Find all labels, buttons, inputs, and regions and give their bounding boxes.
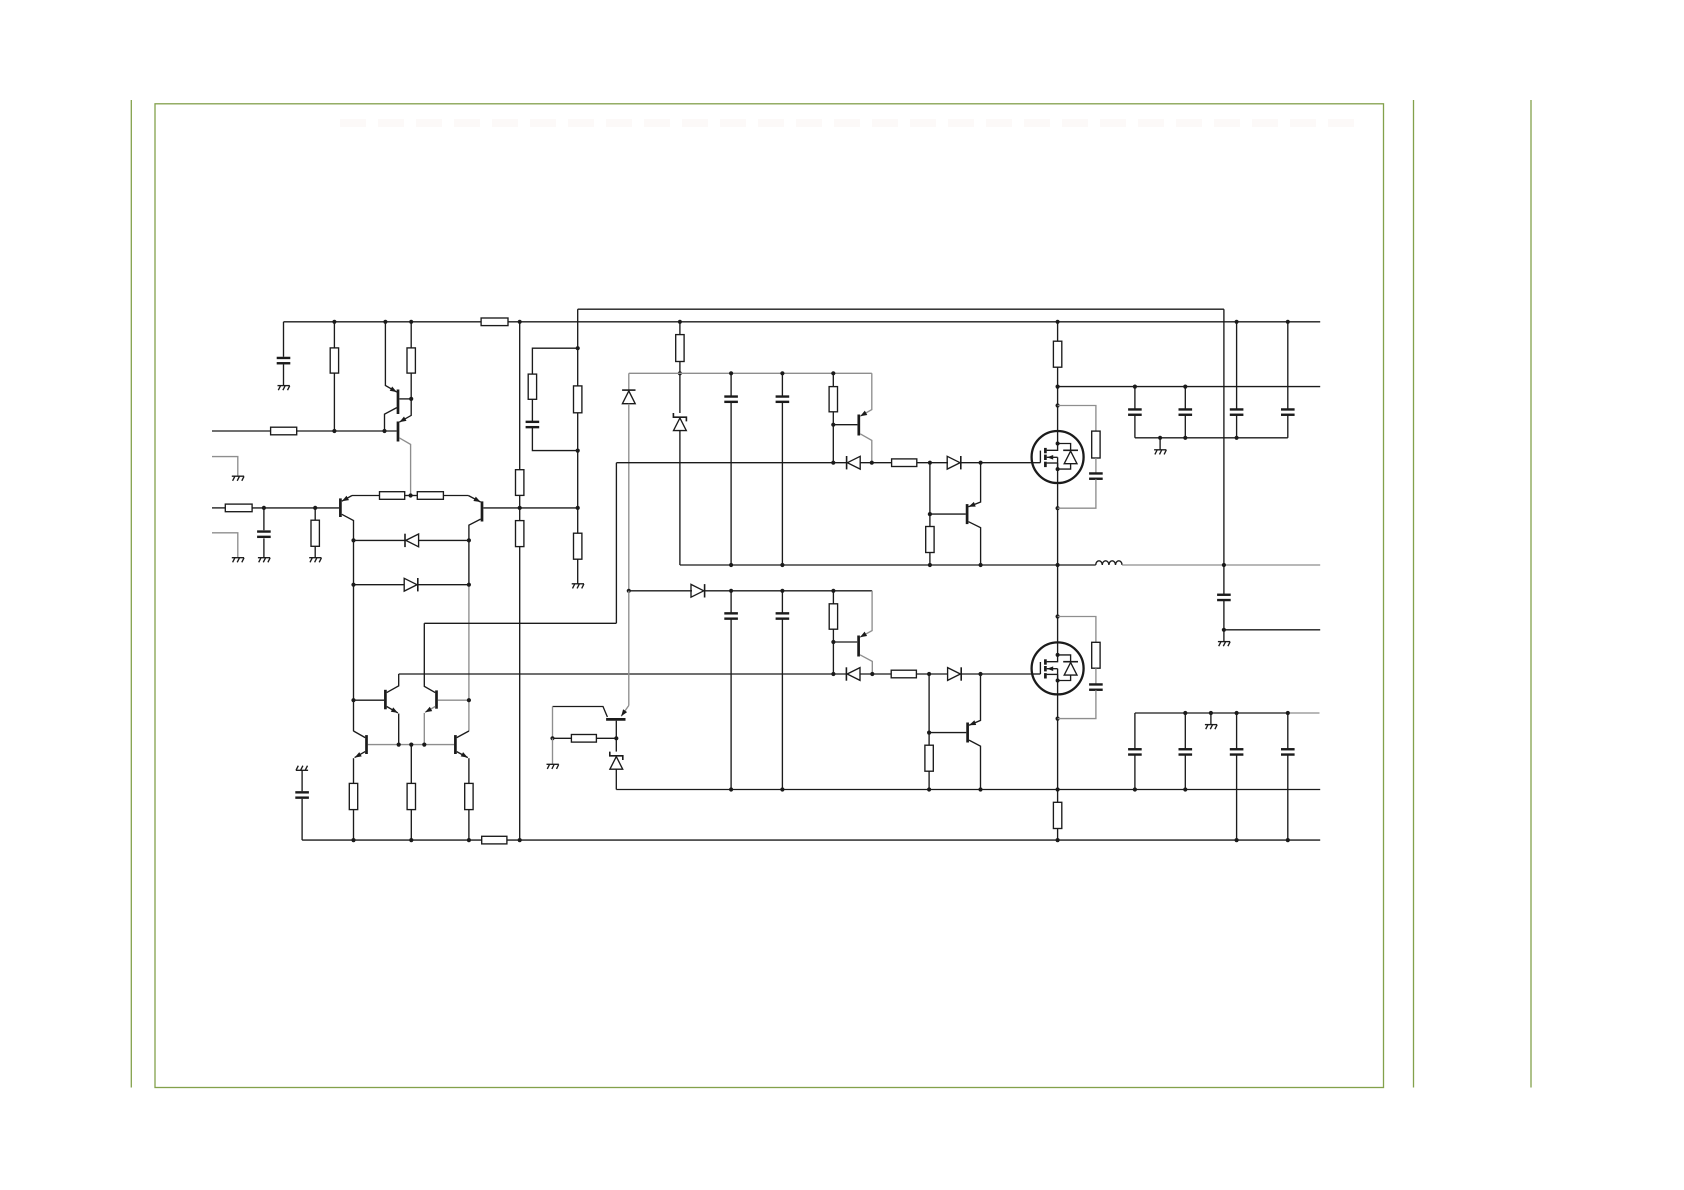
wire R18 bottom: [832, 629, 834, 674]
wire R8 bottom: [519, 547, 521, 841]
node cl em 3: [422, 743, 426, 747]
wire R23 top: [410, 745, 412, 784]
wire snubber1 mid: [1095, 458, 1097, 473]
wire lower cap rail: [1135, 712, 1288, 714]
wire R2 top: [410, 322, 412, 348]
node out C5: [780, 563, 784, 567]
node cap gnd C11: [1183, 436, 1187, 440]
node rail C5: [780, 371, 784, 375]
wire G9 stem: [1159, 438, 1161, 450]
wire R12 top: [679, 322, 681, 335]
wire ref stub 2: [212, 533, 238, 558]
green column line right 2: [1530, 100, 1532, 1088]
wire Rsense bottom: [1057, 829, 1059, 841]
transistor Q12: [455, 731, 469, 783]
resistor R15: [926, 527, 934, 553]
wire Q13 coll drop: [552, 707, 554, 739]
wire diode row1 left: [354, 539, 406, 541]
transistor Q6: [833, 591, 872, 674]
wire lower gate mid2: [916, 673, 947, 675]
node pgnd C15: [1133, 787, 1137, 791]
node row1 left: [351, 538, 355, 542]
node Q13 ref left: [550, 736, 554, 740]
transistor Q4: [468, 496, 577, 585]
wire out bus: [680, 564, 1096, 566]
wire R10a top: [577, 348, 579, 386]
wire capacitor C18 bottom: [1287, 755, 1289, 840]
schematic frame: [155, 104, 1384, 1088]
node out filter: [1222, 563, 1226, 567]
resistor R11 supply: [481, 318, 508, 326]
wire lower gate right: [961, 673, 1031, 675]
wire capacitor C17 top: [1236, 713, 1238, 749]
diode D6: [691, 584, 705, 597]
wire C7 top: [781, 591, 783, 613]
node gate R15: [928, 461, 932, 465]
node out M1: [1056, 563, 1060, 567]
zener diode ZD2: [610, 752, 623, 770]
capacitor C17: [1230, 749, 1244, 754]
resistor R2: [407, 348, 415, 373]
node R7 tap: [313, 506, 317, 510]
node rail R13: [831, 371, 835, 375]
inductor L1: [1096, 561, 1122, 565]
node cl em 1: [397, 743, 401, 747]
zener diode ZD1: [673, 413, 686, 431]
wire M2 source: [1057, 694, 1059, 789]
wire lower gate left: [399, 673, 847, 675]
node cap gnd G9: [1158, 436, 1162, 440]
node Q7 base tap: [928, 512, 932, 516]
node Q1 emitter feed: [383, 320, 387, 324]
wire C1 bottom: [283, 364, 285, 385]
transistor Q5: [833, 373, 872, 462]
node lrail G10: [1209, 711, 1213, 715]
wire upper gate mid2: [917, 462, 948, 464]
ground G11: [1218, 642, 1230, 647]
wire R24 bottom: [468, 810, 470, 841]
wire capacitor C13 bottom: [1287, 415, 1289, 437]
resistor R3 input bias: [271, 427, 297, 435]
wire snubber2 top: [1058, 617, 1096, 643]
wire cluster base row left: [354, 699, 385, 701]
resistor R13: [829, 387, 837, 412]
wire Q8 base: [929, 732, 966, 734]
node snubber1 tap: [1056, 403, 1060, 407]
node rail C11: [1183, 385, 1187, 389]
wire R10b top: [577, 508, 579, 533]
node bbus Rsense: [1056, 838, 1060, 842]
resistor R21s: [1092, 642, 1100, 668]
ground ref stub 1: [232, 476, 244, 481]
wire C5 top: [781, 373, 783, 396]
node Q1 base / Q2 emitter: [409, 397, 413, 401]
wire G11 stem: [1223, 630, 1225, 642]
wire M2 drain: [1057, 565, 1059, 642]
ground G8 inverted: [296, 766, 308, 771]
resistor R16: [1053, 341, 1061, 367]
capacitor C7: [776, 613, 790, 618]
resistor R6 input: [225, 504, 252, 512]
wire cap rail: [1058, 386, 1321, 388]
wire ZD1 bottom: [679, 431, 681, 565]
wire C4 top: [730, 373, 732, 396]
resistor R14 gate: [892, 459, 917, 467]
diode D8: [948, 667, 962, 680]
node gate Q5: [870, 461, 874, 465]
wire R13 bottom: [832, 412, 834, 463]
wire R10a bottom: [577, 413, 579, 508]
node Q13 base tap: [614, 736, 618, 740]
wire upper gate right: [961, 462, 1032, 464]
node loop bottom: [576, 449, 580, 453]
wire capacitor C11 bottom: [1184, 415, 1186, 437]
wire Q7 base: [930, 513, 966, 515]
wire R8 top: [519, 322, 521, 470]
wire R18 top: [832, 591, 834, 604]
wire upper gate left: [616, 462, 846, 464]
wire R7 top: [314, 508, 316, 520]
diode D7: [846, 667, 860, 680]
node lgate Q6: [870, 672, 874, 676]
wire capacitor C11 top: [1184, 387, 1186, 409]
wire LTP emitter row right: [443, 495, 468, 497]
node bbus R24: [467, 838, 471, 842]
wire C6 top: [730, 591, 732, 613]
node cl em 2: [409, 743, 413, 747]
green registration line left: [130, 100, 132, 1088]
capacitor C6: [724, 613, 738, 618]
node pgnd C6: [729, 787, 733, 791]
node cluster base right: [467, 698, 471, 702]
wire R8 mid: [519, 495, 521, 520]
wire capacitor C12 top: [1236, 322, 1238, 409]
wire R20 vert bottom: [928, 771, 930, 789]
wire feedback vertical: [1223, 309, 1225, 595]
resistor R8b: [516, 521, 524, 547]
node lrail C16: [1183, 711, 1187, 715]
node lgate Q8: [978, 672, 982, 676]
wire loop bottom: [532, 428, 577, 451]
resistor R22: [349, 783, 357, 809]
node cap rail tap: [1056, 385, 1060, 389]
capacitor C16: [1179, 749, 1193, 754]
wire snubber1 top: [1058, 406, 1096, 432]
green column line right 1: [1413, 100, 1415, 1088]
wire Q4 collector gray: [468, 585, 470, 732]
node snubber1 bottom: [1056, 506, 1060, 510]
wire C6 bottom: [730, 619, 732, 789]
wire C4 bottom: [730, 403, 732, 566]
resistor R24: [465, 783, 473, 809]
wire capacitor C10 top: [1134, 387, 1136, 409]
node bus C12: [1235, 320, 1239, 324]
node lgate R18: [831, 672, 835, 676]
wire LTP emitter row mid: [405, 495, 418, 497]
wire lower feed right: [705, 590, 873, 592]
wire input to Q3 base: [252, 507, 339, 509]
wire input left: [212, 507, 225, 509]
node R12 top: [678, 320, 682, 324]
node gate Q7: [979, 461, 983, 465]
resistor R19 gate: [891, 670, 916, 678]
node Q5 base: [831, 423, 835, 427]
wire supply bus VCC: [284, 321, 1321, 323]
diode D3: [622, 390, 635, 404]
resistor R12: [676, 335, 684, 362]
wire cluster emitter bus: [368, 744, 454, 746]
wire M1 source: [1057, 483, 1059, 565]
ground G10: [1205, 725, 1217, 730]
wire M1 drain top: [1057, 322, 1059, 341]
wire R20 vert top: [928, 674, 930, 745]
wire R13 top: [832, 373, 834, 386]
diode D2: [404, 578, 418, 591]
wire G10 stem: [1210, 713, 1212, 725]
wire Q13 emitter gray: [628, 591, 630, 706]
wire capacitor C16 bottom: [1184, 755, 1186, 789]
resistor R1: [330, 348, 338, 373]
resistor R23: [407, 783, 415, 809]
resistor R7: [311, 520, 319, 546]
transistor Q2: [398, 399, 411, 496]
ground ref stub 2: [232, 558, 244, 563]
node out Q7: [979, 563, 983, 567]
node bbus R8: [518, 838, 522, 842]
node gate R13: [831, 461, 835, 465]
wire gray drop D3 bottom: [628, 404, 630, 591]
wire snubber2 bottom: [1058, 690, 1096, 718]
node LTP emitter mid: [409, 493, 413, 497]
capacitor C2: [257, 532, 271, 537]
wire snubber2 mid: [1095, 668, 1097, 684]
wire R15 vert top: [929, 463, 931, 527]
node Q1 collector junction: [382, 429, 386, 433]
wire C14 bottom: [1223, 600, 1225, 630]
wire capacitor C15 bottom: [1134, 755, 1136, 789]
capacitor C3 loop: [526, 422, 540, 427]
node pgnd R20: [927, 787, 931, 791]
wire bottom bus right: [507, 839, 1320, 841]
node loop top: [576, 346, 580, 350]
node cluster base left: [351, 698, 355, 702]
capacitor C14: [1217, 595, 1231, 600]
resistor R10b: [574, 533, 582, 559]
node bbus C17: [1235, 838, 1239, 842]
wire capacitor C16 top: [1184, 713, 1186, 749]
node Q6 base: [831, 640, 835, 644]
wire R25 right lead: [596, 737, 616, 739]
wire cap gnd rail: [1135, 437, 1288, 439]
resistor R9 loop: [528, 374, 536, 399]
wire C5 bottom: [781, 403, 783, 566]
node snubber2 tap: [1056, 614, 1060, 618]
resistor R17s: [1092, 431, 1100, 458]
node row2 right: [467, 583, 471, 587]
capacitor C8: [1089, 473, 1103, 478]
ground below R10b: [572, 584, 584, 589]
wire R10b bottom: [577, 559, 579, 584]
MOSFET M1: [1032, 431, 1084, 483]
capacitor C13: [1281, 409, 1295, 414]
wire lower gate mid1: [860, 673, 891, 675]
resistor R27: [482, 836, 507, 844]
wire ZD2 bottom: [615, 769, 617, 789]
transistor Q13: [553, 706, 629, 739]
node out C4: [729, 563, 733, 567]
wire riser vertical: [615, 463, 617, 624]
node Q8 base tap: [927, 731, 931, 735]
wire pgnd bus: [616, 789, 1320, 791]
node R2 top: [409, 320, 413, 324]
node pgnd M2: [1056, 787, 1060, 791]
wire capacitor C10 bottom: [1134, 415, 1136, 437]
capacitor C9: [1089, 684, 1103, 689]
wire C19 top: [301, 770, 303, 791]
node R8 top: [518, 320, 522, 324]
capacitor C19: [295, 792, 309, 797]
ground G9: [1154, 450, 1166, 455]
wire R23 bottom: [410, 810, 412, 841]
transistor Q1: [385, 322, 412, 431]
wire loop top: [532, 348, 577, 374]
node feed C6: [729, 589, 733, 593]
resistor R5 emitter right: [417, 492, 443, 500]
faint header dashes: [340, 119, 1360, 127]
node snubber2 bottom: [1056, 717, 1060, 721]
wire Rsense top: [1057, 790, 1059, 803]
capacitor C5: [776, 397, 790, 402]
node lrail C17: [1235, 711, 1239, 715]
transistor Q11: [354, 731, 367, 783]
wire diode row2 right: [418, 584, 469, 586]
transistor Q7: [967, 463, 981, 565]
diode D5: [947, 456, 961, 469]
wire LTP emitter row left: [352, 495, 380, 497]
wire cluster base row right: [438, 699, 469, 701]
wire R12 bottom: [679, 362, 681, 374]
transistor Q8: [968, 674, 981, 790]
wire R7 bottom: [314, 546, 316, 557]
wire G7 stem: [552, 738, 554, 764]
wire ref stub 1: [212, 457, 238, 477]
wire gray rail upper: [629, 372, 872, 374]
resistor R25: [571, 735, 596, 743]
resistor R8a: [516, 470, 524, 496]
MOSFET M2: [1032, 642, 1084, 694]
wire C7 bottom: [781, 619, 783, 789]
node lgate R20: [927, 672, 931, 676]
wire capacitor C18 top: [1287, 713, 1289, 749]
node feed C7: [780, 589, 784, 593]
node Q4 base R10 tap: [576, 506, 580, 510]
wire R1 top: [333, 322, 335, 348]
node D3 bottom: [627, 589, 631, 593]
wire C2 bottom: [263, 538, 265, 557]
wire upper gate mid1: [860, 462, 891, 464]
node lrail C18: [1286, 711, 1290, 715]
wire out return: [1224, 629, 1320, 631]
transistor Q10: [424, 623, 436, 744]
resistor R20: [925, 745, 933, 771]
transistor Q3: [340, 496, 353, 732]
wire lower feed left: [629, 590, 692, 592]
node bbus C18: [1286, 838, 1290, 842]
capacitor C12: [1230, 409, 1244, 414]
wire R2 bottom: [410, 373, 412, 399]
wire top feedback bus: [578, 308, 1224, 310]
ground below R7: [309, 558, 321, 563]
wire diode row2 left: [354, 584, 405, 586]
node C14 bottom: [1222, 628, 1226, 632]
node bbus R23: [409, 838, 413, 842]
node bbus R22: [351, 838, 355, 842]
wire bottom bus left: [302, 839, 482, 841]
wire ZD1 top: [679, 373, 681, 413]
node R1 top: [332, 320, 336, 324]
wire gray drop D3 top: [628, 373, 630, 390]
wire R22 bottom: [353, 810, 355, 841]
resistor R10a: [574, 386, 582, 413]
capacitor C1: [277, 358, 291, 363]
ground below C2: [258, 558, 270, 563]
node R1-bias junction: [332, 429, 336, 433]
wire R15 vert bottom: [929, 553, 931, 566]
wire capacitor C15 top: [1134, 713, 1136, 749]
capacitor C15: [1128, 749, 1142, 754]
transistor Q9: [385, 674, 398, 745]
node pgnd C16: [1183, 787, 1187, 791]
wire M1 drain mid: [1057, 367, 1059, 431]
node pgnd Q8: [978, 787, 982, 791]
node zener rail: [678, 371, 682, 375]
wire input bias right: [297, 430, 397, 432]
node rail C10: [1133, 385, 1137, 389]
node row1 right: [467, 538, 471, 542]
resistor R18: [829, 604, 837, 629]
wire C1 top: [283, 322, 285, 357]
resistor R4 emitter left: [380, 492, 405, 500]
capacitor C11: [1179, 409, 1193, 414]
wire diode row1 right: [419, 539, 469, 541]
node bus C13: [1286, 320, 1290, 324]
wire input bias left: [212, 430, 271, 432]
node out R15: [928, 563, 932, 567]
node pgnd C7: [780, 787, 784, 791]
node C2 tap: [262, 506, 266, 510]
wire riser to upper gate: [424, 622, 616, 624]
wire out bus gray: [1122, 564, 1320, 566]
node row2 left: [351, 583, 355, 587]
node rail C4: [729, 371, 733, 375]
wire lower cap rail gray: [1288, 712, 1320, 714]
resistor R26 sense: [1053, 802, 1061, 828]
wire feedback corner down: [577, 309, 579, 348]
capacitor C18: [1281, 749, 1295, 754]
node cap gnd C12: [1235, 436, 1239, 440]
diode D1: [405, 534, 419, 547]
wire R1 bottom: [333, 373, 335, 431]
wire R25 left lead: [553, 737, 572, 739]
node Q4 base R8 tap: [518, 506, 522, 510]
diode D4: [847, 456, 861, 469]
node feed R18: [831, 589, 835, 593]
wire loop mid: [531, 399, 533, 421]
wire C19 bottom: [301, 799, 303, 840]
capacitor C4: [724, 397, 738, 402]
ground below C1: [278, 386, 290, 391]
wire ZD2 top: [615, 738, 617, 751]
